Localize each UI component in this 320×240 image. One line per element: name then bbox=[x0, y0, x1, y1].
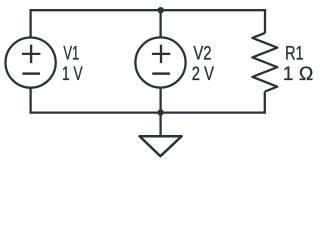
wire ground stub bbox=[159, 113, 161, 135]
wire top net (V1 top to R1 top) bbox=[31, 10, 265, 37]
svg-text:1 Ω: 1 Ω bbox=[283, 64, 314, 85]
node junction top bbox=[158, 7, 164, 13]
V2 plus sign bbox=[152, 53, 170, 55]
voltage source V2 bbox=[135, 37, 185, 87]
svg-text:V2: V2 bbox=[193, 44, 211, 65]
node junction bottom bbox=[157, 109, 163, 115]
svg-text:V1: V1 bbox=[63, 44, 79, 65]
V1 plus sign bbox=[22, 53, 40, 55]
resistor R1 bbox=[252, 33, 277, 92]
wire V2 bottom to bottom net bbox=[159, 88, 161, 113]
svg-text:R1: R1 bbox=[285, 44, 304, 65]
V1 minus sign bbox=[22, 72, 40, 75]
ground bbox=[140, 136, 182, 156]
wire bottom net (V1 bottom to R1 bottom) bbox=[31, 88, 265, 113]
svg-text:2 V: 2 V bbox=[192, 64, 214, 85]
wire V2 top to top net bbox=[159, 10, 161, 37]
svg-text:1 V: 1 V bbox=[62, 64, 83, 85]
voltage source V1 bbox=[6, 38, 56, 88]
V2 minus sign bbox=[152, 72, 170, 75]
